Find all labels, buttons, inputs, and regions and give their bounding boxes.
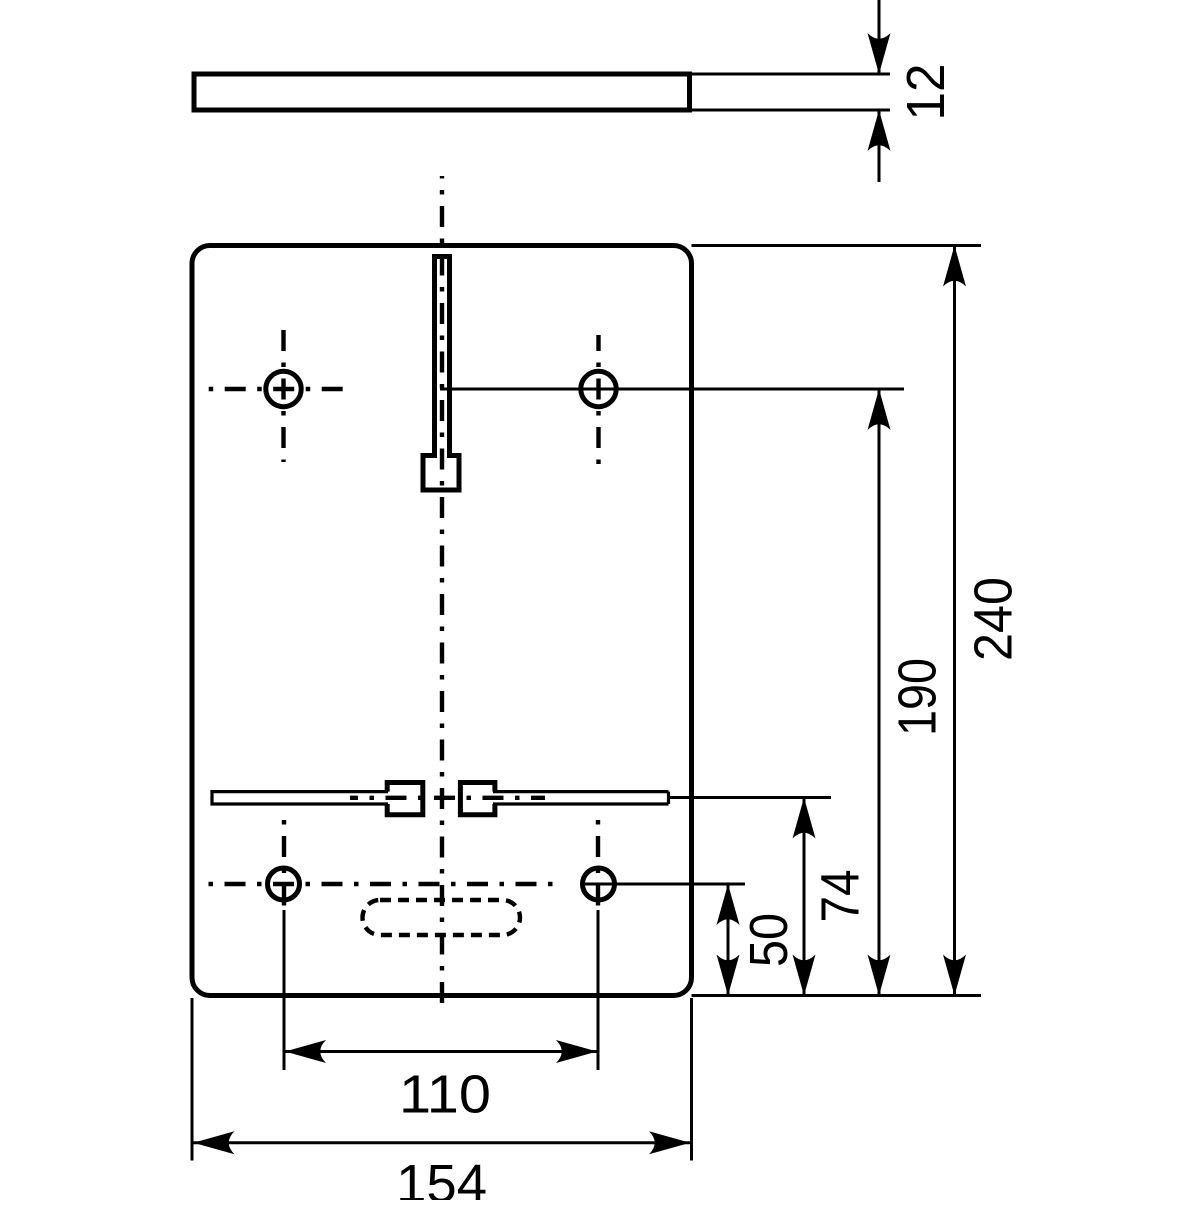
centerline vertical upper-left hole (281, 327, 285, 462)
middle slot left square (387, 783, 423, 815)
dimension line 74 (803, 798, 806, 996)
extension line 154 right (690, 998, 693, 1161)
extension line 190 through upper-right hole (440, 388, 904, 391)
vertical centerline (440, 176, 444, 1013)
centerline of middle slots (350, 796, 545, 800)
extension line bottom right for dims (692, 994, 982, 997)
extension line top right for 240 (692, 244, 982, 247)
middle slot right square (460, 783, 495, 815)
centerline horizontal lower holes (200, 882, 560, 886)
dimension line 50 (727, 884, 730, 996)
dimension line 240 (953, 246, 956, 996)
side view plate rectangle (194, 74, 690, 110)
main plate outline (192, 246, 692, 996)
middle slot right bar (493, 792, 669, 804)
svg-text:190: 190 (888, 658, 948, 736)
svg-text:50: 50 (739, 913, 799, 967)
hole lower-right (583, 868, 615, 900)
keyhole slot top (423, 257, 459, 491)
hole upper-left (266, 371, 301, 406)
svg-text:12: 12 (896, 64, 956, 121)
dimension line 12 lower part (878, 110, 881, 182)
middle slot left bar (212, 792, 388, 804)
svg-text:240: 240 (964, 577, 1024, 661)
extension line top of side view (690, 73, 891, 76)
extension line 50 through lower-right hole (580, 883, 745, 886)
arrow 12 bottom (868, 110, 891, 151)
svg-text:154: 154 (396, 1154, 487, 1200)
dimension line 154 (192, 1141, 692, 1144)
dimension line 110 (284, 1050, 598, 1053)
extension line bottom of side view (690, 109, 891, 112)
svg-text:110: 110 (399, 1065, 491, 1125)
svg-text:74: 74 (811, 870, 871, 923)
centerline + extension line 110 left (282, 815, 286, 910)
extension line 154 left (191, 998, 194, 1161)
centerline vertical upper-right hole (596, 335, 600, 465)
dimension line 12 upper part (878, 0, 881, 74)
centerline horizontal upper-left hole (207, 387, 345, 391)
dimension line 190 (878, 389, 881, 996)
hole lower-left (268, 868, 300, 900)
hole upper-right (581, 371, 616, 406)
centerline + extension line 110 right (596, 815, 600, 910)
extension line 74 (670, 796, 831, 799)
arrow 12 top (868, 33, 891, 74)
hidden slot dashed oval (363, 900, 521, 935)
